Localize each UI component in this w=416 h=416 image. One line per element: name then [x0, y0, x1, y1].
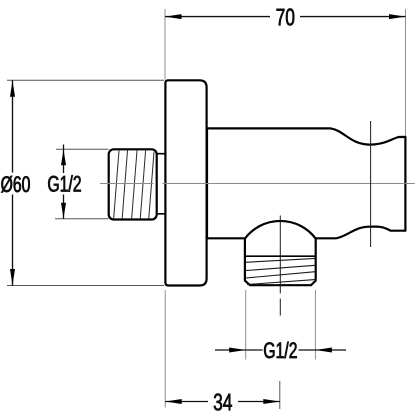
- centerline outlet vertical: [279, 216, 281, 316]
- outlet nut top line: [245, 255, 316, 257]
- dimension G1/2 left text: [45, 173, 84, 195]
- dimension G1/2 left extension top: [56, 148, 109, 150]
- centerline holder cradle vertical: [370, 121, 372, 247]
- outlet dome: [245, 221, 316, 285]
- dimG12L-text G1/2: [48, 175, 81, 192]
- dimension G1/2 bottom extension left: [245, 290, 247, 360]
- dimension 34 extension right: [279, 381, 281, 409]
- threaded nipple G1/2 inlet: [109, 149, 157, 219]
- dimension G1/2 bottom arrowheads: [229, 348, 246, 353]
- neck between nipple and flange: [157, 154, 166, 214]
- dimension D60 text: [0, 173, 31, 195]
- flange escutcheon plate: [165, 80, 206, 285]
- dimension G1/2 left extension bottom: [55, 218, 109, 220]
- nipple thread hatch: [114, 149, 155, 219]
- dimension G1/2 left line: [63, 145, 65, 219]
- dimension 34 arrowheads: [165, 399, 182, 404]
- dimension 34 extension left: [164, 290, 166, 408]
- dimension G1/2 bottom line inner segments: [246, 349, 316, 351]
- dimension D60 arrowheads: [10, 80, 15, 97]
- dimension 70 text: [270, 6, 300, 27]
- dimension 34 text: [208, 391, 238, 412]
- wire body outline: [207, 128, 405, 238]
- dimension G1/2 left arrowheads: [61, 149, 66, 165]
- dimension G1/2 bottom line right tail: [315, 349, 346, 351]
- dimD60-text Ø60: [1, 176, 30, 193]
- dimension G1/2 bottom line left tail: [215, 349, 246, 351]
- dimension 70 extension line right: [405, 9, 407, 136]
- dimension D60 line: [12, 80, 14, 285]
- dimension 70 arrowheads: [165, 14, 182, 19]
- dimension 70 extension line left: [164, 9, 166, 80]
- dimension 70 line: [165, 16, 406, 18]
- outlet thread hatch: [246, 258, 316, 284]
- dimension D60 extension bottom: [7, 285, 164, 287]
- centerline horizontal main axis: [100, 183, 415, 185]
- dimG12B-text G1/2: [264, 342, 297, 359]
- dimension G1/2 bottom extension right: [314, 290, 316, 360]
- dim34-text 34: [214, 394, 232, 411]
- dim70-text 70: [277, 9, 295, 26]
- dimension D60 extension top: [7, 79, 164, 81]
- dimension 34 line: [165, 401, 280, 403]
